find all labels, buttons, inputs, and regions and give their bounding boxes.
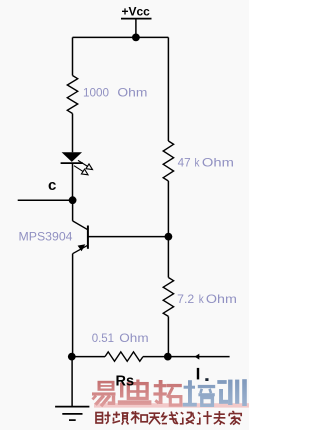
resistor Rs 0.51 Ohm (72, 352, 168, 361)
svg-text:k: k (199, 292, 205, 306)
svg-text:k: k (195, 155, 201, 169)
svg-text:47: 47 (178, 155, 191, 169)
node dot base (165, 233, 173, 241)
watermark char 拓 (153, 380, 181, 404)
svg-text:+Vcc: +Vcc (122, 5, 151, 19)
node dot bottom right (164, 353, 172, 361)
wire to ground (71, 357, 73, 407)
设 (180, 412, 195, 424)
天 (149, 413, 160, 424)
wire right branch top (167, 37, 169, 141)
resistor R1 1000 Ohm (67, 76, 77, 114)
频 (113, 412, 129, 425)
label 1000 Ohm (83, 85, 147, 99)
wire R1 to LED (72, 114, 74, 153)
wire emitter down (72, 254, 74, 357)
svg-text:Ohm: Ohm (117, 85, 147, 99)
svg-text:Ohm: Ohm (202, 155, 234, 169)
专 (214, 411, 226, 425)
wire LED to node c (72, 163, 74, 200)
watermark char 迪 (118, 380, 152, 405)
label 7.2 k Ohm (177, 292, 237, 306)
wire node c stub (18, 199, 73, 201)
svg-text:c: c (48, 177, 56, 194)
watermark band (94, 403, 249, 407)
计 (197, 411, 212, 424)
watermark small text 射频和天线设计专家 (96, 411, 241, 425)
LED emission arrows (74, 160, 93, 174)
LED D1 (61, 152, 83, 163)
watermark char 培 (183, 380, 215, 406)
线 (162, 412, 178, 425)
resistor R3 7.2 k Ohm (163, 278, 173, 317)
watermark char 易 (92, 381, 116, 405)
watermark char 训 (217, 379, 247, 406)
wire top rail (73, 36, 169, 38)
svg-text:Rs: Rs (116, 374, 135, 390)
射 (96, 413, 103, 424)
resistor R2 47 k Ohm (163, 141, 173, 181)
wire 7.2k to bottom node (167, 316, 169, 356)
node dot bottom left (68, 353, 76, 361)
和 (131, 411, 140, 424)
svg-text:MPS3904: MPS3904 (19, 229, 73, 243)
+Vcc power symbol (121, 5, 152, 38)
wire left branch top (72, 37, 74, 75)
label I (197, 368, 199, 380)
wire bottom right with current arrow (168, 356, 230, 358)
node dot top (132, 34, 140, 42)
node dot c (69, 196, 77, 204)
wire base node to 7.2k (167, 237, 169, 278)
svg-text:Ohm: Ohm (206, 292, 237, 306)
svg-text:Ohm: Ohm (119, 331, 148, 345)
wire 47k to base node (167, 181, 169, 237)
transistor emitter arrow (78, 244, 86, 251)
ground (55, 407, 89, 421)
label 0.51 Ohm (92, 331, 149, 345)
current arrow head (195, 354, 200, 360)
svg-text:0.51: 0.51 (92, 331, 115, 345)
transistor Q1 MPS3904 (73, 200, 88, 254)
svg-text:1000: 1000 (83, 85, 109, 99)
watermark dark tick above 培 (205, 378, 208, 381)
svg-text:7.2: 7.2 (177, 292, 194, 306)
label 47 k Ohm (178, 155, 234, 169)
wire base to divider (88, 236, 168, 238)
家 (229, 411, 241, 424)
